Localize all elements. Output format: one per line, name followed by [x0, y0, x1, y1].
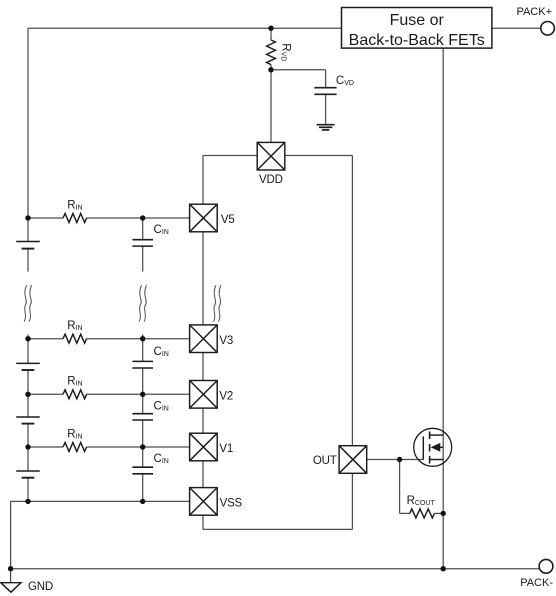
pin box V3	[190, 325, 218, 353]
wire V2 row left of resistor	[28, 393, 63, 395]
wire column B resume above V3 row	[142, 335, 144, 362]
capacitor CIN4 plates	[132, 467, 153, 474]
wire column B cap CIN3 to cap CIN4	[142, 420, 144, 467]
wire left column A below battery B1 to break	[27, 249, 29, 272]
battery cell B4 short plate	[22, 477, 35, 479]
terminal PACK-	[539, 559, 553, 573]
break squiggle column B	[139, 285, 146, 322]
wire V1 row right of resistor to pin V1	[87, 446, 190, 448]
break squiggle column A	[24, 285, 31, 322]
wire left column A below battery B4 to VSS row	[27, 478, 29, 502]
wire RVD top stub	[270, 28, 272, 40]
pin box VSS	[190, 488, 218, 516]
svg-text:V3: V3	[219, 335, 233, 347]
wire CVD vertical lower to ground	[325, 94, 327, 124]
capacitor CIN2 plates	[132, 361, 153, 368]
IC outline bottom edge	[203, 528, 352, 530]
svg-text:V5: V5	[221, 214, 235, 226]
battery cell B3 short plate	[22, 423, 35, 425]
terminal PACK+	[541, 22, 555, 36]
battery cell B2 short plate	[22, 369, 35, 371]
svg-text:VDD: VDD	[259, 174, 283, 186]
pin box V5	[190, 204, 218, 232]
resistor RIN row V2	[63, 390, 87, 399]
wire OUT pin to MOSFET gate	[367, 459, 423, 461]
battery cell B1 long plate	[16, 241, 40, 243]
earth ground under CVD	[317, 125, 335, 130]
MOSFET source bar	[430, 459, 444, 461]
wire V5 row right of resistor to pin V5	[87, 217, 190, 219]
capacitor CIN1 plates	[132, 240, 153, 246]
resistor RIN row V3	[63, 334, 87, 343]
battery cell B4 long plate	[16, 470, 40, 472]
IC outline left edge	[202, 156, 204, 530]
wire CVD vertical upper	[325, 70, 327, 88]
wire V3 row left of resistor	[28, 338, 63, 340]
svg-text:V2: V2	[219, 391, 233, 403]
wire RCOUT vertical from OUT node	[399, 460, 401, 514]
wire V3 row right of resistor to pin V3	[87, 338, 190, 340]
wire left column A upper segment	[27, 28, 29, 241]
battery cell B2 long plate	[16, 362, 40, 364]
wire RCOUT left stub	[400, 512, 410, 514]
wire V5 row left of resistor	[28, 217, 63, 219]
svg-text:V1: V1	[219, 443, 233, 455]
wire left column A between battery B2 and battery B3	[27, 370, 29, 417]
wire branch to CVD horizontal	[271, 69, 326, 71]
wire GND vertical	[10, 501, 12, 582]
svg-text:Back-to-Back FETs: Back-to-Back FETs	[349, 32, 485, 49]
wire left column A between battery B3 and battery B4	[27, 424, 29, 471]
break squiggle beside IC edge	[214, 285, 221, 322]
wire column B from V5 node to cap CIN1	[142, 218, 144, 240]
MOSFET Q1 body circle	[414, 428, 452, 466]
resistor RCOUT	[410, 509, 435, 518]
MOSFET channel dashes	[429, 431, 431, 463]
battery cell B1 short plate	[22, 248, 35, 250]
svg-text:Fuse or: Fuse or	[390, 12, 445, 29]
wire column B cap CIN2 to cap CIN3	[142, 368, 144, 414]
wire drain vertical from fuse box to bottom rail	[442, 48, 444, 569]
MOSFET gate plate	[422, 436, 424, 459]
svg-text:OUT: OUT	[313, 455, 337, 467]
MOSFET drain bar	[430, 434, 444, 436]
resistor RVD	[267, 40, 276, 65]
IC outline top edge	[203, 155, 352, 157]
pin box VDD	[257, 142, 285, 170]
ground triangle GND	[1, 583, 21, 593]
resistor RIN row V1	[63, 443, 87, 452]
capacitor CVD plates	[314, 88, 336, 95]
wire top rail from left column to fuse box	[28, 27, 342, 29]
pin box OUT	[339, 446, 367, 474]
MOSFET body bar with arrow	[436, 446, 443, 448]
svg-text:PACK+: PACK+	[516, 6, 552, 18]
wire V1 row left of resistor	[28, 446, 63, 448]
wire VSS row	[11, 500, 190, 502]
wire RVD bottom stub down to VDD pin	[270, 65, 272, 143]
IC outline right edge	[351, 156, 353, 530]
capacitor CIN3 plates	[132, 414, 153, 420]
resistor RIN row V5	[63, 214, 87, 223]
svg-text:VSS: VSS	[220, 497, 243, 509]
wire column B below cap CIN1 to break	[142, 246, 144, 272]
fuse box Fuse or Back-to-Back FETs	[342, 8, 492, 49]
wire column B below cap CIN4 to VSS row	[142, 474, 144, 502]
battery cell B3 long plate	[16, 416, 40, 418]
wire bottom rail to PACK-	[11, 568, 540, 570]
pin box V1	[190, 433, 218, 461]
wire fuse box to PACK+	[492, 27, 541, 29]
wire RCOUT right stub	[434, 512, 443, 514]
pin box V2	[190, 381, 218, 409]
svg-text:PACK-: PACK-	[520, 577, 553, 589]
wire left column A resume above V3 row	[27, 335, 29, 364]
wire V2 row right of resistor to pin V2	[87, 393, 190, 395]
svg-text:GND: GND	[28, 581, 53, 593]
